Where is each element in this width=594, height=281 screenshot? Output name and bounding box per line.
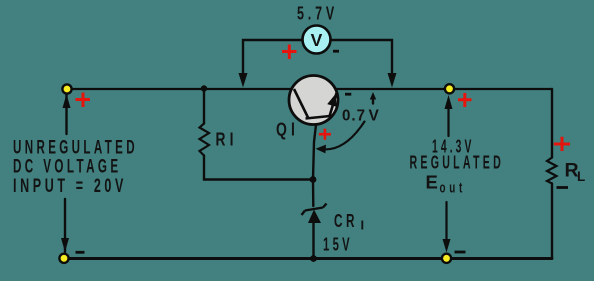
svg-text:E: E [426,172,438,193]
svg-text:15V: 15V [323,234,353,255]
svg-text:INPUT = 20V: INPUT = 20V [13,176,127,197]
svg-text:I: I [361,218,365,233]
svg-text:QI: QI [276,119,299,140]
svg-text:REGULATED: REGULATED [410,153,505,173]
svg-text:V: V [369,108,380,125]
svg-text:0.7: 0.7 [342,108,366,125]
svg-text:CR: CR [334,210,358,231]
svg-text:RI: RI [216,129,238,150]
svg-text:5.7V: 5.7V [297,4,338,24]
svg-text:L: L [577,169,585,184]
svg-text:V: V [311,30,323,50]
svg-text:out: out [440,181,467,197]
svg-text:DC VOLTAGE: DC VOLTAGE [13,157,122,178]
svg-text:UNREGULATED: UNREGULATED [13,138,138,159]
